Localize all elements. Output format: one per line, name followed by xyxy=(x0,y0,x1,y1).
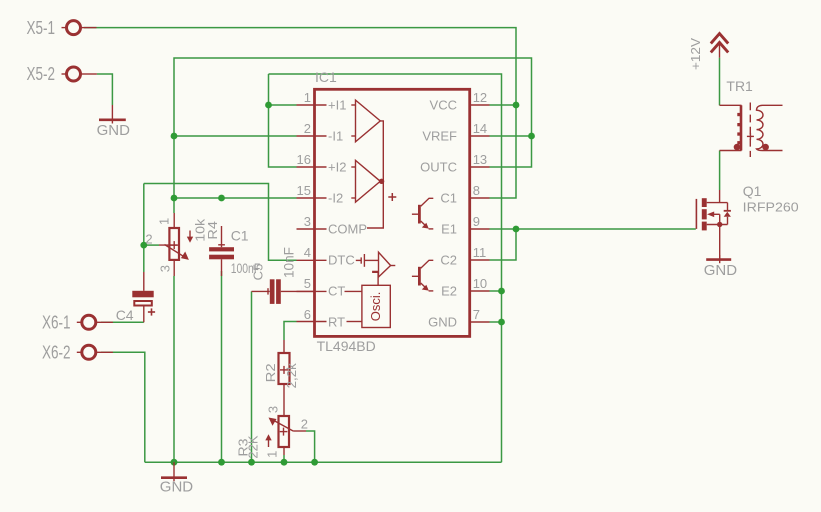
svg-text:2,2k: 2,2k xyxy=(284,363,299,389)
wire C1 bottom to rail xyxy=(221,271,223,462)
svg-text:3: 3 xyxy=(157,265,172,272)
pin 10 E2 xyxy=(441,276,489,298)
svg-text:+I2: +I2 xyxy=(328,160,346,175)
svg-text:10: 10 xyxy=(473,276,487,291)
potentiometer R3 22K xyxy=(236,406,308,459)
wire RT pin6 to R2 xyxy=(284,322,297,341)
svg-text:X5-2: X5-2 xyxy=(27,64,56,84)
junction pin1 +I1 xyxy=(265,102,272,109)
svg-text:C2: C2 xyxy=(440,253,457,268)
svg-text:12: 12 xyxy=(473,90,487,105)
svg-text:4: 4 xyxy=(304,245,311,260)
svg-text:X6-2: X6-2 xyxy=(42,343,71,363)
pin 15 -I2 xyxy=(297,183,344,205)
junction pin14 VREF xyxy=(528,133,535,140)
svg-text:C1: C1 xyxy=(440,191,457,206)
junction rail R3 wiper xyxy=(311,459,318,466)
plus mark near op-amp 2 xyxy=(388,193,396,201)
svg-text:GND: GND xyxy=(160,478,194,495)
junction rail R3 pin1 xyxy=(281,459,288,466)
junction rail GND symbol xyxy=(171,459,178,466)
svg-text:GND: GND xyxy=(97,122,131,139)
supply +12V symbol xyxy=(688,34,728,70)
svg-text:COMP: COMP xyxy=(328,222,367,237)
svg-text:-I2: -I2 xyxy=(328,191,343,206)
svg-text:TR1: TR1 xyxy=(726,78,753,94)
wire E2 pin10 xyxy=(490,290,502,292)
pin 5 CT xyxy=(297,276,346,298)
wire TR1 bottom to Q1 drain xyxy=(719,151,721,191)
svg-text:CT: CT xyxy=(328,284,345,299)
connector X5-1 xyxy=(27,18,97,38)
junction pin7 GND xyxy=(498,319,505,326)
svg-text:1: 1 xyxy=(156,218,171,225)
capacitor C4 electrolytic xyxy=(116,272,155,323)
pin 12 VCC xyxy=(430,90,490,112)
svg-text:1: 1 xyxy=(304,90,311,105)
wire bottom ground rail xyxy=(145,461,502,463)
svg-text:Osci.: Osci. xyxy=(368,292,383,322)
svg-text:R4: R4 xyxy=(205,221,220,240)
svg-text:C4: C4 xyxy=(116,307,134,323)
svg-text:-I1: -I1 xyxy=(328,129,343,144)
svg-text:VREF: VREF xyxy=(422,129,457,144)
connector X5-2 xyxy=(27,64,97,84)
junction R4 wiper xyxy=(140,242,147,249)
svg-text:13: 13 xyxy=(473,152,487,167)
svg-text:2: 2 xyxy=(301,416,308,431)
wire -I2 pin15 xyxy=(174,197,297,199)
svg-text:X5-1: X5-1 xyxy=(27,18,56,38)
svg-text:RT: RT xyxy=(328,315,345,330)
transformer TR1 xyxy=(720,78,783,157)
svg-text:2: 2 xyxy=(304,121,311,136)
svg-text:9: 9 xyxy=(473,214,480,229)
capacitor C5 10nF xyxy=(251,247,314,304)
pin 7 GND xyxy=(428,307,489,329)
wire X5-2 to GND xyxy=(97,74,113,105)
transistor internal 2 (C2/E2) xyxy=(412,260,433,291)
pin 11 C2 xyxy=(440,245,489,267)
wire ground net: +I1/+I2 loop xyxy=(269,104,297,106)
ground symbol at Q1 xyxy=(704,255,738,279)
connector X6-2 xyxy=(42,343,113,363)
junction rail C5 xyxy=(248,459,255,466)
svg-text:C5: C5 xyxy=(251,264,266,281)
potentiometer R4 xyxy=(145,213,220,276)
svg-text:+I1: +I1 xyxy=(328,98,346,113)
pin 1 +I1 xyxy=(297,90,347,112)
junction pin2 -I1 xyxy=(171,133,178,140)
svg-text:10nF: 10nF xyxy=(281,247,297,278)
svg-text:E2: E2 xyxy=(441,284,457,299)
wire R3 pin1 to rail xyxy=(283,455,285,462)
pin 2 -I1 xyxy=(297,121,344,143)
wire net VCC: X5-1 to pin12 VCC and pin8 C1 xyxy=(84,28,516,105)
svg-text:22K: 22K xyxy=(245,435,260,458)
transistor internal 1 (C1/E1) xyxy=(412,198,433,229)
DTC comparator triangle xyxy=(373,252,396,285)
svg-text:X6-1: X6-1 xyxy=(42,313,71,333)
svg-text:TL494BD: TL494BD xyxy=(317,338,376,354)
IC U1 TL494BD body xyxy=(315,69,470,354)
connector X6-1 xyxy=(42,313,113,333)
wire X6-2 to rail xyxy=(101,352,145,462)
wire E1 to gate and C2 xyxy=(490,228,696,230)
wire ground net: top to right vertical xyxy=(269,74,502,462)
junction E1 node xyxy=(513,226,520,233)
pin 4 DTC xyxy=(297,245,355,267)
svg-text:3: 3 xyxy=(304,214,311,229)
wire C5 left to rail xyxy=(251,291,253,462)
DTC input cap marks xyxy=(356,254,379,267)
wire DTC net vertical to C4 top xyxy=(143,184,145,273)
pin 8 C1 xyxy=(440,183,489,205)
pin 6 RT xyxy=(297,307,346,329)
op-amp 2 inside IC xyxy=(351,160,380,202)
svg-text:2: 2 xyxy=(145,232,152,247)
svg-text:11: 11 xyxy=(473,245,487,260)
wire DTC net horizontal to pin4 xyxy=(144,184,297,261)
svg-text:GND: GND xyxy=(428,315,457,330)
ground symbol bottom xyxy=(160,462,194,495)
wire -I1 pin2 xyxy=(174,135,297,137)
svg-text:+12V: +12V xyxy=(688,38,703,70)
svg-text:VCC: VCC xyxy=(430,98,457,113)
pin 3 COMP xyxy=(297,214,368,236)
svg-text:OUTC: OUTC xyxy=(420,160,457,175)
svg-text:5: 5 xyxy=(304,276,311,291)
pin 16 +I2 xyxy=(297,152,347,174)
svg-text:8: 8 xyxy=(473,183,480,198)
capacitor C1 100nF xyxy=(209,226,260,276)
svg-text:15: 15 xyxy=(297,183,311,198)
junction op-amp outputs xyxy=(379,179,384,184)
op-amp 1 inside IC xyxy=(351,100,380,142)
pin 9 E1 xyxy=(441,214,489,236)
svg-text:C1: C1 xyxy=(231,227,249,243)
svg-text:1: 1 xyxy=(265,451,280,458)
wire +12V to TR1 xyxy=(719,58,721,106)
wire R4 pin3 to rail xyxy=(173,276,175,462)
wire R3 wiper to rail xyxy=(306,431,315,462)
junction pin15 -I2 xyxy=(171,195,178,202)
svg-text:DTC: DTC xyxy=(328,253,355,268)
wire net VREF/OUTC to -I1/-I2 via left vertical xyxy=(490,135,532,137)
pin 14 VREF xyxy=(422,121,489,143)
svg-text:IRFP260: IRFP260 xyxy=(743,199,799,214)
resistor R2 2,2k xyxy=(263,340,299,416)
svg-text:3: 3 xyxy=(266,406,281,413)
svg-text:R2: R2 xyxy=(263,363,278,382)
feedback line op-amps to COMP xyxy=(367,121,383,228)
svg-text:GND: GND xyxy=(704,262,738,279)
ground symbol upper left xyxy=(97,105,131,139)
svg-text:Q1: Q1 xyxy=(743,183,762,199)
wire GND pin7 xyxy=(490,321,502,323)
transistor Q1 IRFP260 MOSFET xyxy=(696,183,798,260)
svg-text:E1: E1 xyxy=(441,222,457,237)
wire R4 wiper xyxy=(144,244,159,246)
pin 13 OUTC xyxy=(420,152,489,174)
wire X6-1 to C4 xyxy=(101,321,144,323)
junction C1 top xyxy=(218,195,225,202)
junction pin12 VCC xyxy=(513,102,520,109)
oscillator box Osci. xyxy=(345,285,391,327)
svg-text:14: 14 xyxy=(473,121,487,136)
junction pin10 E2 xyxy=(498,288,505,295)
svg-text:IC1: IC1 xyxy=(315,69,337,85)
svg-text:16: 16 xyxy=(297,152,311,167)
svg-text:6: 6 xyxy=(304,307,311,322)
svg-text:7: 7 xyxy=(473,307,480,322)
junction rail C1 xyxy=(218,459,225,466)
